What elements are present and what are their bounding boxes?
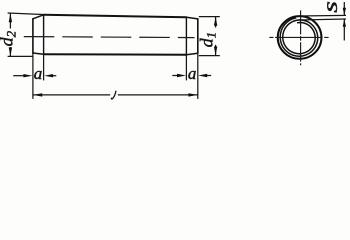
dimension d1 (199, 17, 220, 56)
end view vertical centerline (300, 10, 302, 65)
dimension a left (13, 75, 56, 77)
pin centerline (24, 37, 195, 38)
label l (111, 91, 116, 99)
end view horizontal centerline (269, 36, 328, 38)
a left arrow right-pointing (23, 74, 32, 77)
left extension line below pin (chamfer) (43, 54, 45, 80)
dimension d2 (8, 13, 43, 56)
d2 arrow down (9, 47, 12, 56)
bottom edge (44, 53, 187, 56)
s upper extension line (299, 14, 347, 17)
a right outer arrow tail (172, 75, 180, 77)
l arrow right-pointing (188, 93, 197, 96)
right chamfer boundary line (185, 17, 187, 55)
l dimension line left segment (33, 94, 110, 96)
d1 arrow down (214, 47, 217, 56)
s dimension line upper segment (343, 2, 345, 15)
top edge (44, 15, 187, 17)
a left arrow left-pointing (44, 74, 53, 77)
l arrow left-pointing (33, 93, 42, 96)
d1 dimension line upper segment (215, 17, 217, 28)
svg-text:a: a (34, 64, 43, 83)
d2 top extension line (8, 13, 43, 15)
svg-text:s: s (319, 1, 342, 13)
dimension l (33, 94, 198, 96)
a right arrow left-pointing (198, 74, 207, 77)
right extension line below pin (end face) (197, 53, 199, 99)
s lower extension line (299, 18, 347, 21)
d1 top extension line (199, 16, 220, 18)
a right arrow right-pointing (177, 74, 186, 77)
d2 dimension line upper segment (9, 13, 11, 28)
svg-text:d2: d2 (0, 30, 19, 46)
s arrow down (343, 8, 346, 16)
end view outer circle (278, 16, 322, 59)
d1 bottom extension line (199, 55, 220, 57)
d2 bottom extension line (8, 55, 33, 57)
left chamfer bottom edge (33, 53, 44, 54)
svg-text:a: a (188, 64, 197, 83)
d2 dimension line lower segment (9, 47, 11, 56)
d1 arrow up (214, 17, 217, 26)
left chamfer top edge (33, 15, 44, 19)
a left inner arrow tail (50, 75, 56, 77)
s dimension line lower segment (343, 19, 345, 40)
right chamfer top edge (186, 17, 197, 19)
end view coil spiral (280, 18, 318, 57)
s arrow up (343, 19, 346, 27)
right end face (197, 19, 199, 53)
right chamfer bottom edge (186, 53, 197, 55)
dimension a right (172, 75, 211, 77)
pin side view outline (33, 15, 198, 55)
left end face (32, 19, 34, 53)
right extension line below pin (chamfer) (185, 55, 187, 81)
l dimension line right segment (118, 94, 198, 96)
dimension s (299, 2, 347, 41)
a right inner arrow tail (205, 75, 211, 77)
left chamfer boundary line (43, 15, 45, 54)
d2 arrow up (9, 13, 12, 22)
d1 dimension line lower segment (215, 45, 217, 56)
left extension line below pin (end face) (32, 53, 34, 99)
a left outer arrow tail (13, 75, 26, 77)
